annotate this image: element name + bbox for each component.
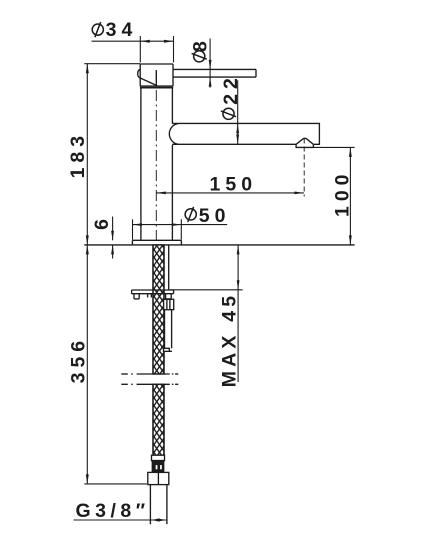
svg-text:G3/8″: G3/8″ <box>76 500 150 522</box>
dimension 100 line <box>349 147 352 245</box>
label dia22 <box>220 73 242 119</box>
head bottom seam double line <box>140 86 173 88</box>
label 6 <box>91 214 113 230</box>
svg-text:356: 356 <box>68 336 90 384</box>
body column right edge lower <box>171 145 173 240</box>
body column right edge upper <box>171 88 173 124</box>
countertop surface line <box>84 244 354 246</box>
connector hex nut <box>148 472 169 484</box>
dimension dia50 line <box>133 223 228 226</box>
label dia8 <box>189 36 211 62</box>
dimension G3/8 leader and arrows <box>74 519 167 522</box>
threaded mounting stud edge <box>168 245 170 290</box>
hose crimp ferrule <box>152 455 165 460</box>
svg-text:183: 183 <box>67 131 89 179</box>
svg-text:MAX 45: MAX 45 <box>219 292 241 388</box>
dimension MAX45 line <box>237 245 240 382</box>
dimension dia34 extension lines <box>140 36 173 63</box>
label 356 <box>68 336 90 384</box>
svg-text:150: 150 <box>210 173 258 195</box>
label dia34 <box>92 19 137 41</box>
base plate escutcheon <box>132 240 181 245</box>
svg-text:100: 100 <box>332 169 354 217</box>
dimension 150 line <box>156 192 304 195</box>
lever left rounded tip <box>138 69 141 78</box>
faucet head cap <box>140 64 173 86</box>
vertical centerline of faucet <box>155 70 157 245</box>
dimension 183 line <box>86 64 89 245</box>
label 183 <box>67 131 89 179</box>
knurled collar with slots <box>152 461 163 473</box>
svg-text:8: 8 <box>189 36 211 52</box>
body column left edge <box>140 88 142 241</box>
dimension 356 line <box>86 245 89 484</box>
rod end foot <box>164 348 173 351</box>
dimension 6 line <box>111 217 114 259</box>
handle stem vertical line <box>155 70 157 86</box>
label MAX45 <box>219 292 241 388</box>
dimension dia22 line <box>236 80 239 144</box>
label G3/8 <box>76 500 150 522</box>
spout tube with rounded left cap <box>169 123 319 144</box>
hose break symbol upper line <box>121 373 178 375</box>
dimension dia8 line <box>209 39 212 88</box>
svg-text:34: 34 <box>106 19 138 41</box>
svg-text:50: 50 <box>199 205 231 227</box>
hose break symbol lower line <box>121 383 178 385</box>
washer right lip <box>166 294 172 299</box>
label dia50 <box>185 205 230 227</box>
threaded rod below nut <box>165 310 172 349</box>
dimension 183 top extension line <box>84 63 140 65</box>
dimension 100 top extension line <box>313 146 354 148</box>
dimension dia34 line <box>92 40 174 43</box>
horseshoe washer plate <box>132 290 174 294</box>
dimension dia50 extension lines <box>133 219 182 239</box>
svg-text:6: 6 <box>91 214 113 230</box>
label 100 <box>332 169 354 217</box>
washer left lip <box>134 294 139 299</box>
svg-text:22: 22 <box>220 73 242 105</box>
dimension 356 bottom extension line <box>84 483 147 485</box>
lever handle bar <box>173 69 256 77</box>
mounting nut <box>164 299 174 309</box>
G3/8 threaded pipe end <box>150 485 167 525</box>
aerator outlet dome and ring <box>296 138 313 147</box>
outlet centerline dashed <box>303 139 305 197</box>
braided supply hose lower section <box>153 384 164 455</box>
dimension MAX45 extension line <box>170 289 243 291</box>
lever slanted underside line <box>140 78 157 86</box>
braided supply hose upper section <box>153 245 164 374</box>
label 150 <box>210 173 258 195</box>
washer underside ticks <box>148 294 152 298</box>
